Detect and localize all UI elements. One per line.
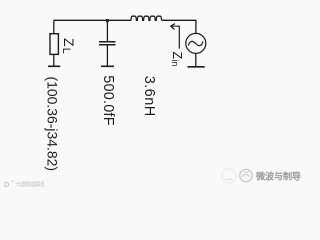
svg-text:3.6nH: 3.6nH bbox=[141, 76, 157, 117]
wire: capacitor bottom lead bbox=[106, 46, 108, 66]
node junction dot at capacitor tap bbox=[106, 19, 109, 22]
AC source sine symbol bbox=[188, 41, 203, 45]
ground bar under source bbox=[188, 66, 205, 68]
wire: resistor bottom lead bbox=[53, 54, 55, 65]
resistor ZL (termination body) bbox=[50, 34, 58, 55]
capacitor C1 plates bbox=[99, 42, 116, 45]
svg-text:500.0fF: 500.0fF bbox=[100, 75, 116, 126]
svg-text:™: ™ bbox=[10, 179, 14, 184]
ground bar under resistor bbox=[48, 65, 60, 67]
inductor L1 (5-hump coil) bbox=[131, 16, 162, 20]
watermark: bottom-left faint logo and text bbox=[4, 179, 45, 189]
svg-text:(100.36-j34.82): (100.36-j34.82) bbox=[45, 77, 61, 172]
ground bar under capacitor bbox=[101, 65, 114, 67]
wire: resistor top lead bbox=[53, 20, 55, 33]
svg-text:大波微波基地: 大波微波基地 bbox=[15, 181, 45, 189]
wire: top rail left segment (resistor corner to inductor) bbox=[54, 19, 131, 21]
wire: source bottom lead bbox=[195, 53, 197, 66]
wire: capacitor top lead bbox=[106, 20, 108, 41]
wire: top rail right segment (inductor to source corner, corner down to source) bbox=[162, 20, 196, 33]
watermark: bottom-right faint logo circle bbox=[222, 169, 236, 183]
watermark: logo circle 2 bbox=[240, 169, 252, 181]
Zin arrow (input impedance looking left) bbox=[171, 24, 180, 49]
AC source circle bbox=[186, 33, 206, 53]
svg-text:微波与制导: 微波与制导 bbox=[255, 170, 301, 181]
